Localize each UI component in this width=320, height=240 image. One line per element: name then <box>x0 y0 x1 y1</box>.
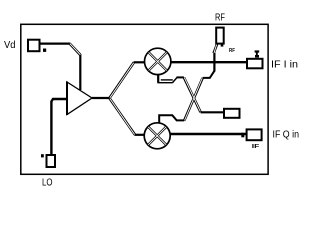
svg-text:LO: LO <box>42 176 53 188</box>
svg-text:IF: IF <box>252 144 260 150</box>
svg-text:IF Q in: IF Q in <box>273 129 300 141</box>
svg-text:RF: RF <box>229 48 236 54</box>
svg-text:Vd: Vd <box>4 39 16 51</box>
svg-text:RF: RF <box>215 12 225 24</box>
svg-text:IF I in: IF I in <box>271 58 298 70</box>
